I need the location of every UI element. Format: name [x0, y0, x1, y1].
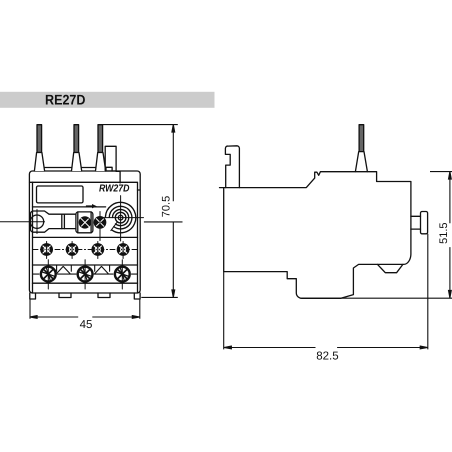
pin P2	[72, 125, 82, 171]
terminal row 1	[33, 249, 137, 251]
svg-text:RE27D: RE27D	[45, 91, 86, 107]
svg-text:70.5: 70.5	[161, 196, 173, 217]
arrow marker	[86, 204, 97, 208]
dim 51.5 line	[449, 172, 451, 298]
top-right shoulder step	[116, 171, 120, 183]
knob stem	[411, 216, 421, 229]
pin P1	[34, 125, 44, 171]
inner panel lines	[32, 182, 34, 293]
dim 70.5 extension bottom	[141, 296, 178, 298]
dim 70.5 line	[172, 125, 174, 298]
dim 45 line	[30, 316, 140, 318]
left foot	[30, 293, 36, 299]
dim 70.5 extension top	[103, 124, 178, 126]
pin P3	[96, 125, 106, 171]
svg-text:82.5: 82.5	[316, 350, 338, 362]
dim 82.5 line	[224, 347, 428, 349]
screw B3	[115, 260, 130, 289]
title bar RE27D	[0, 91, 215, 107]
bottom tab left	[59, 293, 71, 298]
circle D (dark screw)	[94, 212, 105, 241]
dim 45 extensions	[30, 300, 140, 319]
dim 51.5 ext top	[430, 171, 452, 173]
screw B2	[78, 260, 93, 289]
svg-text:RW27D: RW27D	[99, 183, 130, 194]
block beside pin 3	[105, 146, 116, 171]
reset arm	[30, 211, 76, 232]
dial U1	[104, 196, 144, 241]
reset crosshair	[0, 210, 45, 234]
leader line mid	[144, 221, 183, 223]
screw T3	[91, 242, 104, 259]
screw T4	[117, 242, 130, 259]
side outline	[225, 146, 239, 188]
dim 82.5 extensions	[224, 234, 428, 350]
test block C	[76, 212, 93, 233]
terminal row 2 links	[33, 265, 137, 274]
body outline	[29, 171, 140, 293]
top ledge line between pins	[45, 167, 96, 169]
bottom pocket notch	[378, 264, 403, 272]
screw T2	[66, 242, 79, 259]
bottom tab right	[98, 293, 110, 298]
block C screw (dark)	[79, 216, 91, 228]
reset circle	[30, 215, 43, 228]
right foot	[134, 293, 140, 299]
screw T1	[40, 242, 53, 259]
knob cap	[421, 212, 428, 234]
svg-text:51.5: 51.5	[438, 222, 450, 243]
pin side	[355, 125, 367, 172]
label window	[37, 186, 84, 203]
screw B1	[41, 260, 56, 289]
svg-text:45: 45	[80, 319, 93, 331]
dim 51.5 ext bottom	[300, 297, 452, 299]
